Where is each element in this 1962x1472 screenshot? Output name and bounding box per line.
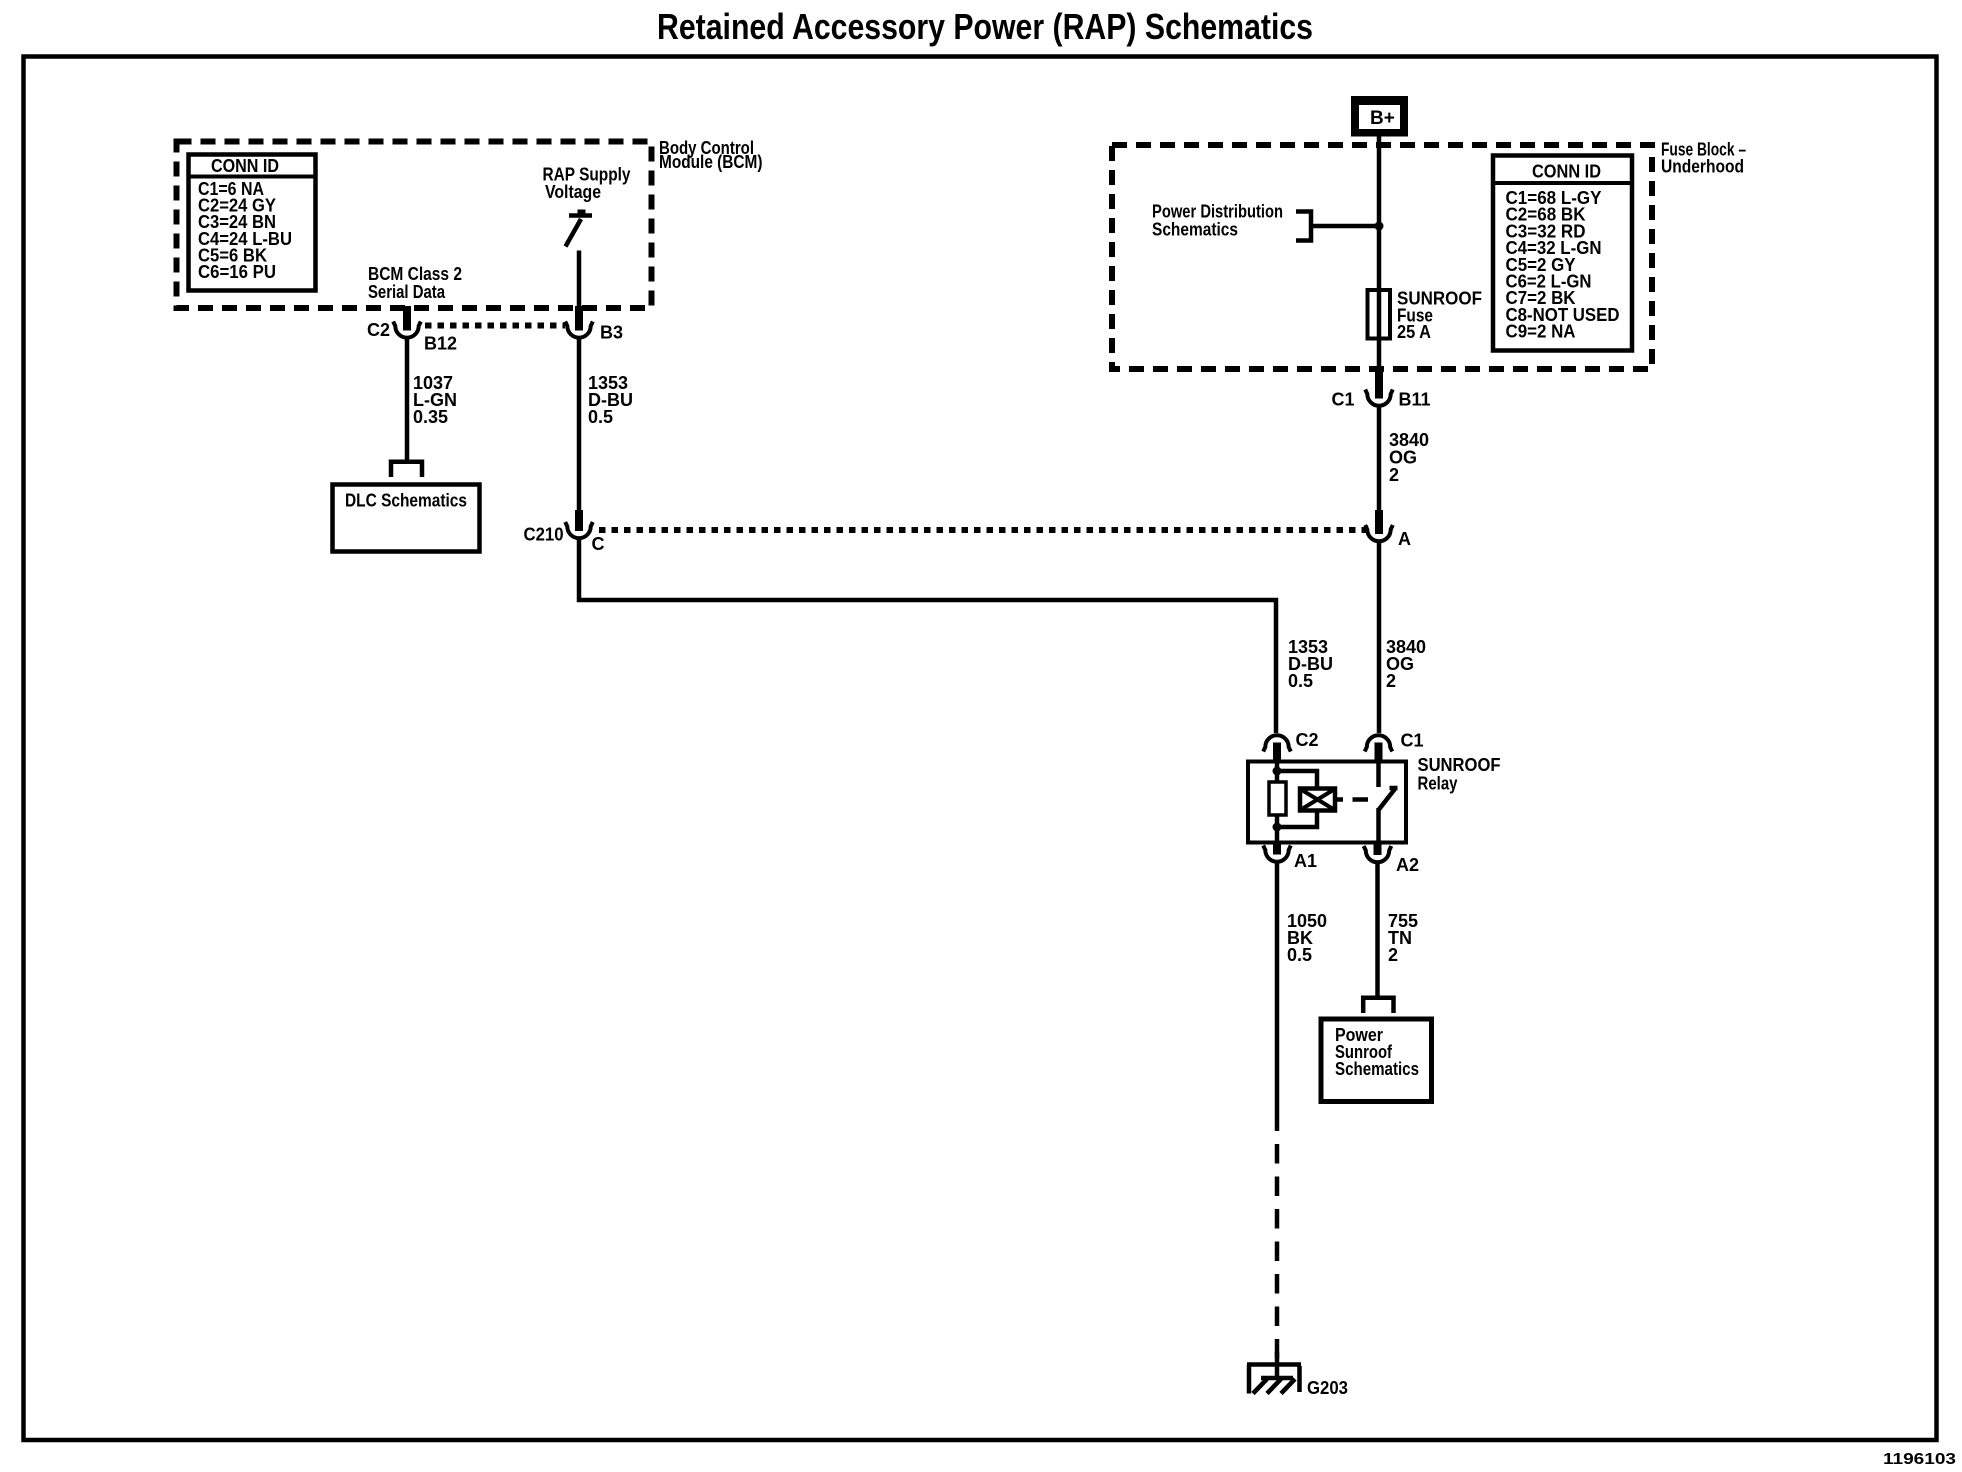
connector C1 (relay) bbox=[1365, 731, 1424, 764]
dotted class-2 link C2 to B3 bbox=[425, 323, 565, 329]
svg-text:1196103: 1196103 bbox=[1883, 1451, 1956, 1468]
svg-text:0.5: 0.5 bbox=[1287, 945, 1312, 965]
fuse block CONN ID table bbox=[1493, 156, 1632, 351]
branch wire to coil bbox=[1277, 771, 1317, 789]
svg-text:C: C bbox=[592, 534, 605, 554]
dotted link C210 to A bbox=[599, 527, 1366, 533]
wire resistor to bottom junction bbox=[1275, 815, 1280, 844]
relay SUNROOF box bbox=[1248, 762, 1406, 843]
BCM module dashed box bbox=[177, 142, 652, 309]
svg-text:A: A bbox=[1398, 529, 1411, 549]
wire 1050 A1 down (solid) bbox=[1275, 861, 1280, 1131]
connector C2 (relay) bbox=[1263, 730, 1318, 764]
svg-text:C2: C2 bbox=[367, 320, 390, 340]
label wire 3840 OG 2 (upper) bbox=[1389, 430, 1429, 485]
svg-text:Schematics: Schematics bbox=[1152, 220, 1238, 240]
connector A bbox=[1365, 510, 1411, 549]
wire 1037 from C2 to DLC bbox=[405, 338, 410, 462]
junction dot top bbox=[1273, 767, 1282, 776]
switch RAP supply (inside BCM) bbox=[566, 210, 593, 247]
label SUNROOF Fuse 25 A bbox=[1397, 289, 1482, 343]
svg-text:C9=2 NA: C9=2 NA bbox=[1506, 322, 1576, 342]
connector C2 B12 (BCM) bbox=[367, 306, 457, 354]
wire coil to bottom junction bbox=[1277, 811, 1317, 828]
BCM CONN ID table bbox=[189, 155, 316, 291]
bracket power distribution bbox=[1296, 212, 1379, 241]
svg-text:B3: B3 bbox=[600, 323, 623, 343]
svg-text:C1: C1 bbox=[1332, 390, 1355, 410]
svg-text:B12: B12 bbox=[424, 334, 457, 354]
svg-text:CONN ID: CONN ID bbox=[1532, 162, 1601, 182]
label wire 3840 OG 2 (lower) bbox=[1386, 637, 1426, 691]
svg-text:2: 2 bbox=[1388, 945, 1398, 965]
fuse block underhood dashed box bbox=[1112, 145, 1652, 369]
wire C210 down right and to relay C2 bbox=[579, 538, 1276, 733]
ground G203 bbox=[1247, 1352, 1348, 1398]
connector C210 C bbox=[524, 510, 605, 554]
svg-text:BCM Class 2: BCM Class 2 bbox=[368, 264, 462, 284]
svg-text:G203: G203 bbox=[1307, 1378, 1348, 1398]
label Fuse Block - Underhood bbox=[1661, 140, 1746, 177]
svg-text:C210: C210 bbox=[524, 525, 564, 545]
DLC Schematics box bbox=[333, 485, 480, 552]
relay switch blade bbox=[1379, 788, 1398, 811]
resistor (relay) bbox=[1269, 782, 1286, 815]
wire 755 A2 to bracket bbox=[1375, 862, 1380, 998]
label RAP Supply Voltage bbox=[543, 164, 631, 202]
svg-text:SUNROOF: SUNROOF bbox=[1418, 755, 1501, 775]
svg-text:0.5: 0.5 bbox=[1288, 671, 1313, 691]
relay switch fixed contact bbox=[1376, 764, 1381, 788]
svg-text:B11: B11 bbox=[1399, 390, 1431, 410]
wire B+ to fuse bbox=[1377, 136, 1382, 369]
svg-text:25 A: 25 A bbox=[1397, 322, 1431, 342]
svg-text:C1: C1 bbox=[1401, 731, 1424, 751]
relay switch lower wire bbox=[1376, 808, 1381, 844]
svg-text:Underhood: Underhood bbox=[1661, 157, 1744, 177]
label wire 755 TN 2 bbox=[1388, 911, 1418, 965]
off-page bracket to power sunroof bbox=[1363, 998, 1393, 1013]
label wire 1050 BK 0.5 bbox=[1287, 911, 1327, 965]
off-page bracket to DLC bbox=[391, 462, 422, 477]
fuse SUNROOF 25A bbox=[1368, 290, 1391, 339]
svg-text:C6=16 PU: C6=16 PU bbox=[198, 262, 276, 282]
connector B3 (BCM) bbox=[565, 306, 623, 343]
svg-text:C2: C2 bbox=[1296, 730, 1319, 750]
svg-text:0.5: 0.5 bbox=[588, 407, 613, 427]
coil actuation dashes bbox=[1335, 797, 1368, 802]
relay coil bbox=[1300, 789, 1335, 811]
connector A1 bbox=[1263, 844, 1317, 872]
svg-text:Schematics: Schematics bbox=[1335, 1059, 1419, 1079]
label Body Control Module (BCM) bbox=[659, 138, 763, 172]
label BCM Class 2 Serial Data bbox=[368, 264, 462, 302]
svg-text:A2: A2 bbox=[1396, 855, 1419, 875]
connector C1 B11 bbox=[1332, 369, 1431, 410]
junction dot at B+ feed bbox=[1375, 222, 1384, 231]
svg-text:Relay: Relay bbox=[1418, 774, 1458, 794]
label wire 1353 D-BU 0.5 (lower) bbox=[1288, 637, 1333, 691]
battery feed B+ bbox=[1351, 96, 1408, 137]
wire 1050 dashed to ground bbox=[1275, 1144, 1280, 1364]
wire 3840 B11 to A bbox=[1377, 406, 1382, 514]
wire switch to B3 bbox=[577, 251, 582, 309]
svg-text:2: 2 bbox=[1389, 465, 1399, 485]
junction dot bottom bbox=[1273, 823, 1282, 832]
svg-text:Retained Accessory Power (RAP): Retained Accessory Power (RAP) Schematic… bbox=[657, 6, 1313, 47]
label wire 1037 L-GN 0.35 bbox=[413, 373, 457, 427]
svg-text:2: 2 bbox=[1386, 671, 1396, 691]
svg-text:Module (BCM): Module (BCM) bbox=[659, 152, 763, 172]
svg-text:B+: B+ bbox=[1370, 108, 1395, 129]
label Power Distribution Schematics bbox=[1152, 202, 1283, 240]
label wire 1353 D-BU 0.5 bbox=[588, 373, 633, 427]
svg-text:CONN ID: CONN ID bbox=[211, 156, 279, 176]
connector A2 bbox=[1364, 844, 1419, 876]
wire 1353 from B3 to C210 bbox=[577, 338, 582, 514]
svg-text:DLC Schematics: DLC Schematics bbox=[345, 491, 467, 511]
svg-text:Serial Data: Serial Data bbox=[368, 282, 446, 302]
svg-text:A1: A1 bbox=[1294, 851, 1317, 871]
svg-text:0.35: 0.35 bbox=[413, 407, 448, 427]
relay internal left wire bbox=[1275, 764, 1280, 783]
Power Sunroof Schematics box bbox=[1321, 1019, 1432, 1102]
svg-text:Voltage: Voltage bbox=[545, 182, 601, 202]
svg-text:Power Distribution: Power Distribution bbox=[1152, 202, 1283, 222]
wire A to relay C1 bbox=[1377, 541, 1382, 733]
label SUNROOF Relay bbox=[1418, 755, 1501, 794]
